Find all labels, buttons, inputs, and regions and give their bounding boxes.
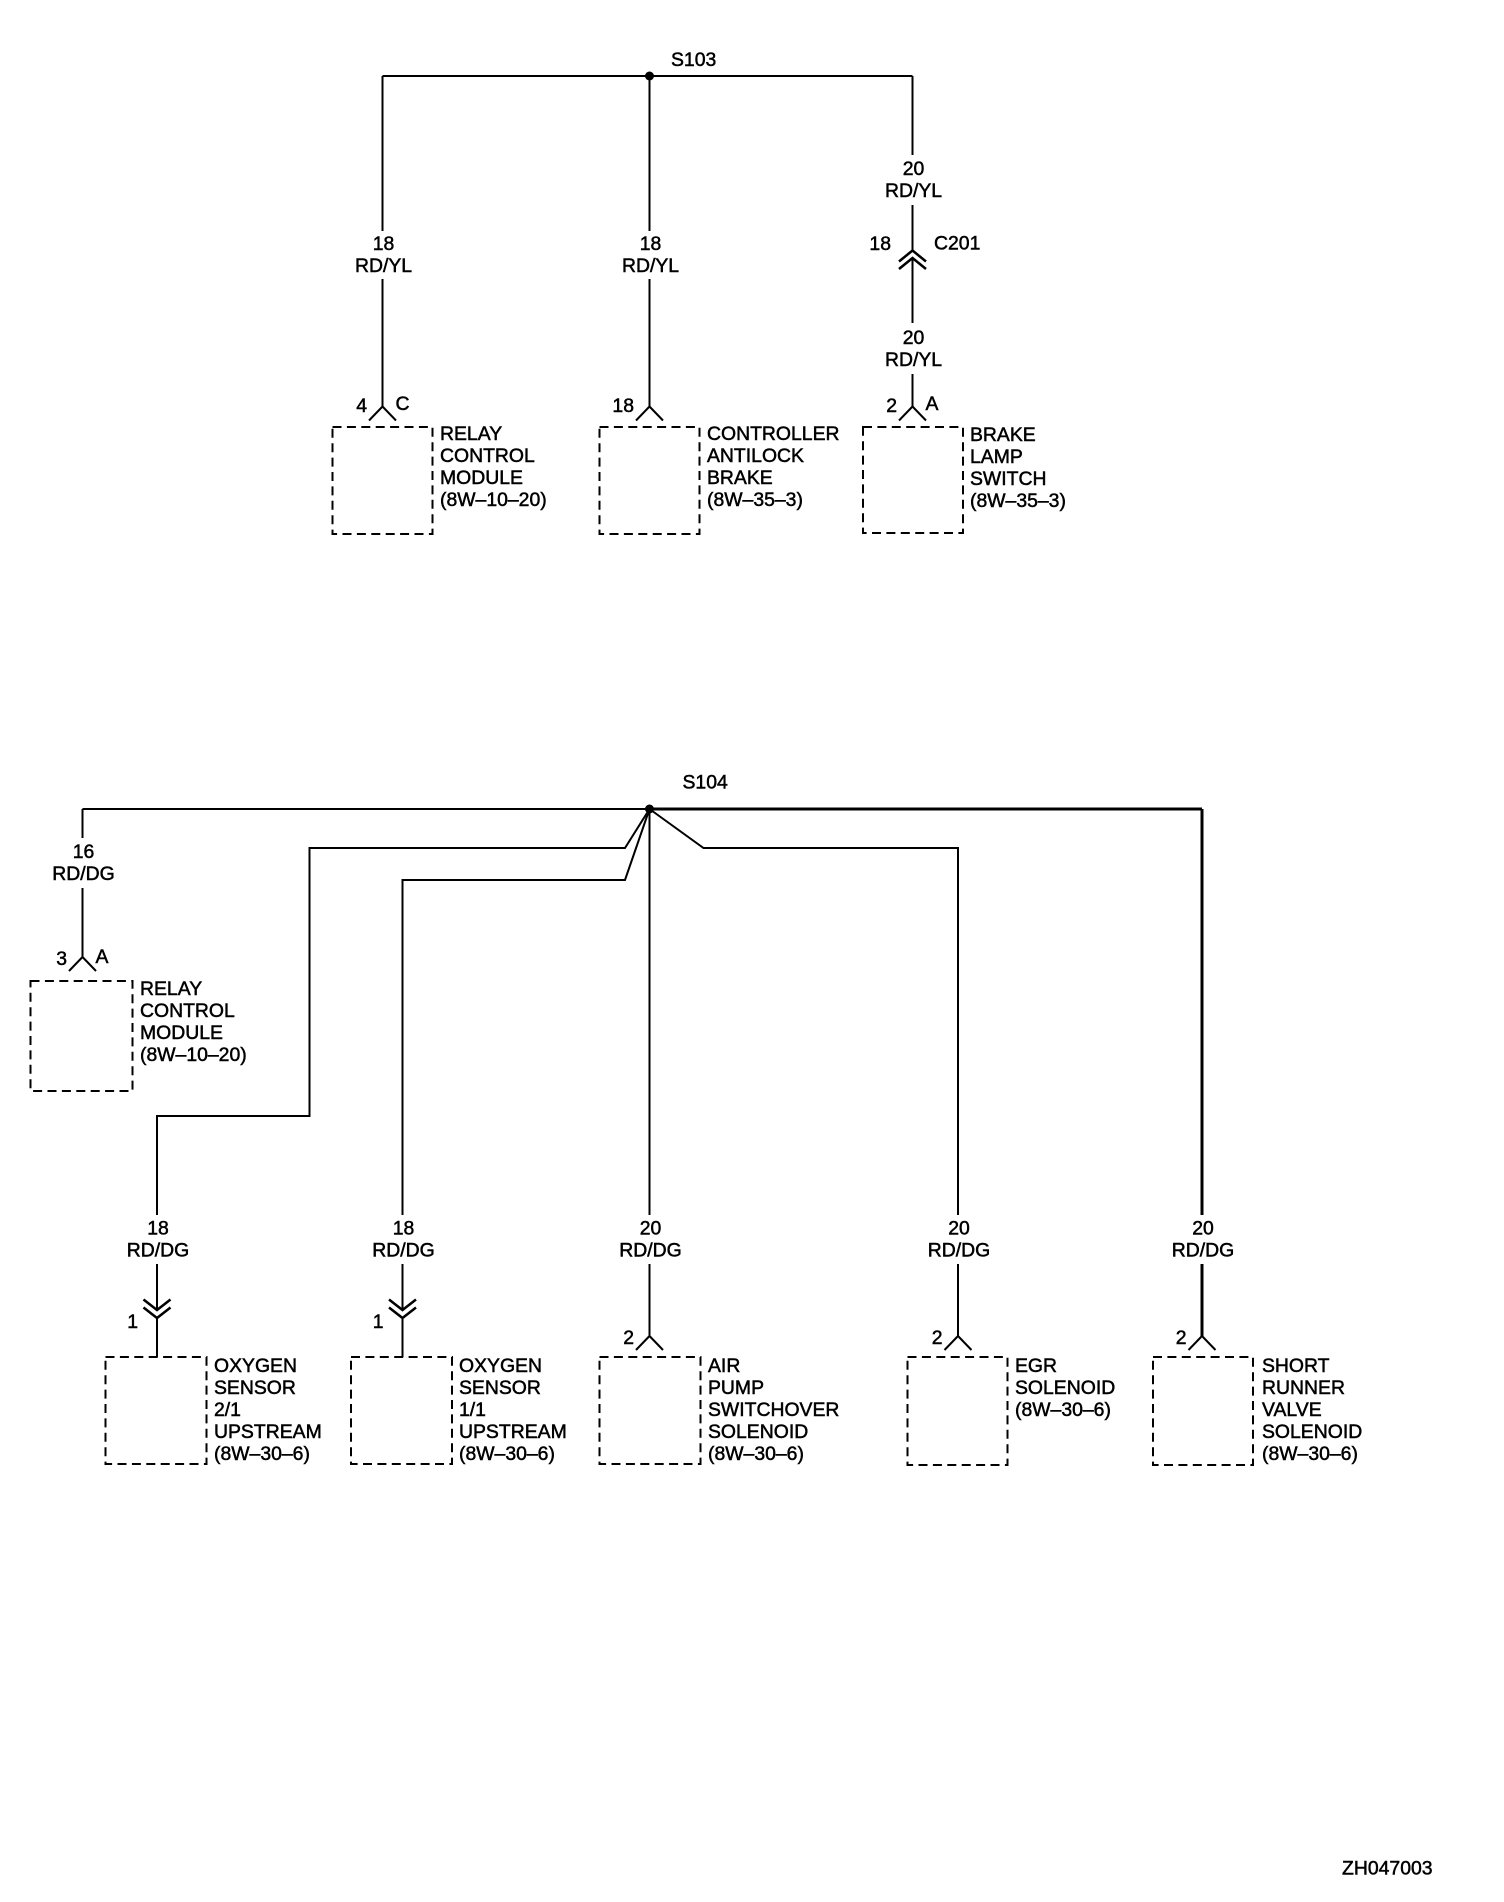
svg-text:1: 1 [373, 1311, 384, 1333]
svg-text:(8W–10–20): (8W–10–20) [440, 489, 547, 511]
svg-text:OXYGEN: OXYGEN [214, 1355, 297, 1377]
svg-text:RD/DG: RD/DG [928, 1240, 990, 1262]
svg-text:MODULE: MODULE [140, 1022, 223, 1044]
svg-text:OXYGEN: OXYGEN [459, 1355, 542, 1377]
svg-text:SWITCH: SWITCH [970, 468, 1046, 490]
svg-text:(8W–30–6): (8W–30–6) [459, 1443, 555, 1465]
svg-text:RD/YL: RD/YL [885, 180, 942, 202]
svg-text:CONTROLLER: CONTROLLER [707, 423, 840, 445]
svg-text:SOLENOID: SOLENOID [1015, 1377, 1115, 1399]
svg-text:RUNNER: RUNNER [1262, 1377, 1345, 1399]
svg-text:18: 18 [612, 395, 634, 417]
svg-text:CONTROL: CONTROL [140, 1000, 235, 1022]
svg-text:BRAKE: BRAKE [970, 424, 1036, 446]
svg-text:(8W–35–3): (8W–35–3) [970, 490, 1066, 512]
svg-text:(8W–35–3): (8W–35–3) [707, 489, 803, 511]
svg-text:UPSTREAM: UPSTREAM [214, 1421, 322, 1443]
svg-text:VALVE: VALVE [1262, 1399, 1322, 1421]
svg-text:RD/DG: RD/DG [619, 1240, 681, 1262]
svg-text:20: 20 [640, 1218, 662, 1240]
svg-text:1: 1 [127, 1311, 138, 1333]
svg-text:UPSTREAM: UPSTREAM [459, 1421, 567, 1443]
svg-text:A: A [96, 946, 109, 968]
svg-text:SENSOR: SENSOR [214, 1377, 296, 1399]
svg-text:(8W–30–6): (8W–30–6) [1262, 1443, 1358, 1465]
svg-text:MODULE: MODULE [440, 467, 523, 489]
svg-text:18: 18 [869, 233, 891, 255]
svg-text:18: 18 [373, 233, 395, 255]
svg-text:1/1: 1/1 [459, 1399, 486, 1421]
svg-text:16: 16 [73, 841, 95, 863]
svg-text:SWITCHOVER: SWITCHOVER [708, 1399, 839, 1421]
svg-text:AIR: AIR [708, 1355, 740, 1377]
svg-text:20: 20 [903, 327, 925, 349]
svg-text:BRAKE: BRAKE [707, 467, 773, 489]
svg-text:(8W–10–20): (8W–10–20) [140, 1044, 247, 1066]
svg-text:SOLENOID: SOLENOID [708, 1421, 808, 1443]
svg-text:ZH047003: ZH047003 [1342, 1858, 1433, 1880]
svg-text:S104: S104 [683, 772, 729, 794]
svg-text:2: 2 [623, 1327, 634, 1349]
svg-text:(8W–30–6): (8W–30–6) [708, 1443, 804, 1465]
svg-text:RD/DG: RD/DG [52, 863, 114, 885]
svg-text:PUMP: PUMP [708, 1377, 764, 1399]
svg-text:SHORT: SHORT [1262, 1355, 1330, 1377]
svg-text:SENSOR: SENSOR [459, 1377, 541, 1399]
svg-text:C: C [396, 393, 410, 415]
svg-text:ANTILOCK: ANTILOCK [707, 445, 804, 467]
svg-text:EGR: EGR [1015, 1355, 1057, 1377]
svg-text:RD/DG: RD/DG [1172, 1240, 1234, 1262]
svg-text:RELAY: RELAY [140, 978, 202, 1000]
svg-text:20: 20 [1192, 1218, 1214, 1240]
svg-text:(8W–30–6): (8W–30–6) [1015, 1399, 1111, 1421]
svg-text:RD/YL: RD/YL [355, 255, 412, 277]
svg-text:20: 20 [903, 158, 925, 180]
svg-text:RD/DG: RD/DG [127, 1240, 189, 1262]
svg-text:18: 18 [147, 1218, 169, 1240]
svg-text:2/1: 2/1 [214, 1399, 241, 1421]
svg-text:RD/DG: RD/DG [372, 1240, 434, 1262]
svg-text:A: A [926, 393, 939, 415]
svg-text:LAMP: LAMP [970, 446, 1023, 468]
svg-text:(8W–30–6): (8W–30–6) [214, 1443, 310, 1465]
svg-text:CONTROL: CONTROL [440, 445, 535, 467]
svg-text:20: 20 [948, 1218, 970, 1240]
svg-text:3: 3 [56, 948, 67, 970]
svg-text:2: 2 [886, 395, 897, 417]
svg-text:2: 2 [1176, 1327, 1187, 1349]
svg-text:18: 18 [393, 1218, 415, 1240]
svg-text:RD/YL: RD/YL [622, 255, 679, 277]
svg-text:RELAY: RELAY [440, 423, 502, 445]
svg-text:2: 2 [932, 1327, 943, 1349]
svg-text:4: 4 [356, 395, 367, 417]
svg-text:SOLENOID: SOLENOID [1262, 1421, 1362, 1443]
svg-text:RD/YL: RD/YL [885, 349, 942, 371]
svg-text:S103: S103 [671, 49, 716, 71]
svg-text:C201: C201 [934, 233, 980, 255]
svg-text:18: 18 [640, 233, 662, 255]
